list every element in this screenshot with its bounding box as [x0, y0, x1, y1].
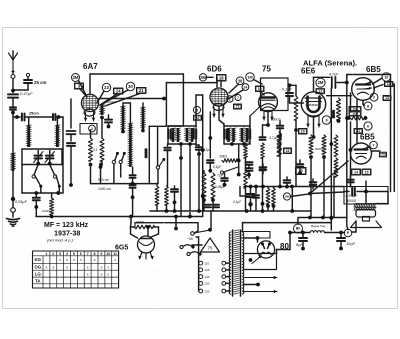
- tube 6A7: [81, 94, 98, 111]
- capacitor 174: [171, 186, 178, 211]
- filament arrow: [252, 255, 262, 263]
- svg-text:B0: B0: [296, 227, 300, 231]
- tube 6E6: [301, 92, 325, 116]
- wire feeder x346 top: [345, 75, 391, 219]
- wire top bus drop: [182, 74, 184, 126]
- svg-text:0,005µF: 0,005µF: [346, 194, 359, 198]
- svg-text:2: 2: [91, 127, 93, 131]
- svg-text:25cm: 25cm: [29, 112, 39, 116]
- resistor 6E6 k2: [315, 135, 326, 159]
- capacitor 25cm antenna: [13, 73, 47, 90]
- label 6G5: [115, 245, 128, 252]
- coil osc 3: [141, 103, 146, 132]
- wire second bus y82: [166, 83, 217, 126]
- wires divider down: [311, 180, 324, 218]
- pickup triangle: [201, 238, 220, 252]
- svg-text:5: 5: [73, 252, 75, 256]
- svg-text:24: 24: [243, 85, 247, 89]
- heater arrow 2: [244, 290, 277, 294]
- pin circle 2M 6D6: [199, 74, 206, 81]
- label 6A7: [83, 62, 98, 71]
- wire IFT2 to 75 grid: [250, 107, 260, 126]
- tube 80 filament hooks: [261, 252, 271, 254]
- svg-text:7: 7: [87, 252, 89, 256]
- wires switch columns: [114, 164, 121, 184]
- svg-text:30: 30: [128, 84, 133, 89]
- scan noise: [15, 31, 386, 306]
- circle BO lamp: [294, 224, 303, 233]
- label 500cm: [98, 178, 109, 182]
- capacitor 313: [310, 179, 317, 189]
- wire 6B5 cathode diagonal: [308, 161, 348, 195]
- svg-text:KG: KG: [34, 257, 41, 262]
- box 80 top: [241, 232, 271, 239]
- wire right column x63: [62, 117, 64, 193]
- wire IFT1 left column: [164, 144, 171, 211]
- svg-text:100000: 100000: [144, 148, 148, 158]
- variable capacitor C2: [45, 151, 55, 166]
- wires 6G5 grid loop: [131, 227, 159, 234]
- svg-text:160: 160: [205, 282, 210, 286]
- capacitors det bypass: [205, 205, 219, 208]
- capacitor k2: [67, 143, 75, 187]
- IFT2 primary coil: [226, 128, 236, 142]
- junction antenna node: [11, 89, 15, 93]
- wire RF input row with caps: [13, 112, 63, 121]
- svg-text:6B5: 6B5: [366, 65, 381, 74]
- text 1937-38: [54, 229, 80, 238]
- svg-text:20: 20: [301, 130, 305, 134]
- pin box 13: [383, 96, 391, 101]
- wire feeder x331: [329, 88, 333, 230]
- svg-text:73: 73: [381, 153, 385, 157]
- svg-text:0,1µF: 0,1µF: [233, 200, 242, 204]
- label 6D6: [207, 65, 222, 74]
- wire to IFT1: [168, 125, 183, 127]
- transformer primary winding: [229, 232, 230, 294]
- resistor 6B5 bias: [347, 116, 368, 120]
- variable capacitor C1: [34, 151, 44, 166]
- pin circle 6: [364, 122, 372, 130]
- svg-text:2: 2: [52, 252, 54, 256]
- capacitor 287: [284, 177, 291, 189]
- antenna terminal: [11, 75, 15, 79]
- svg-text:23: 23: [104, 85, 109, 90]
- svg-text:8: 8: [367, 104, 369, 108]
- wire feeder x390 right: [391, 75, 395, 192]
- label 75: [262, 65, 271, 74]
- svg-text:6E6: 6E6: [301, 67, 316, 76]
- wire 75 plate to cap: [288, 83, 292, 91]
- pin box 12: [385, 82, 394, 87]
- pin circle 9 6E6: [322, 116, 330, 124]
- resistor 157: [155, 184, 159, 211]
- capacitor 16uF: [337, 233, 356, 251]
- wire osc col to bus: [132, 197, 134, 216]
- svg-text:7µF: 7µF: [217, 174, 224, 178]
- wire SW to diagonal: [291, 194, 310, 197]
- svg-text:TA: TA: [35, 279, 41, 284]
- pin box 20: [299, 129, 308, 135]
- IFT1 trimmer left: [168, 130, 170, 139]
- svg-text:4,7µF: 4,7µF: [329, 73, 339, 77]
- wire 80 cathode to Bplus: [277, 231, 292, 254]
- wire BO up: [297, 218, 299, 225]
- resistor 6E6 k1: [309, 135, 313, 159]
- coil antenna secondary: [55, 117, 60, 147]
- svg-text:LG: LG: [35, 272, 42, 277]
- capacitor 250 det: [247, 185, 255, 211]
- svg-text:0,05µF: 0,05µF: [15, 200, 28, 204]
- wire HV top y222: [243, 223, 332, 232]
- wire main bus: [36, 215, 203, 219]
- wire osc top link: [123, 103, 130, 123]
- svg-text:10000: 10000: [42, 209, 50, 213]
- svg-text:1: 1: [45, 252, 47, 256]
- ground: [7, 212, 20, 226]
- wire 6B5 cathode: [363, 100, 364, 106]
- tube 6G5 magic eye: [138, 236, 155, 253]
- heater arrow 1: [244, 276, 277, 280]
- svg-text:16µF: 16µF: [346, 241, 356, 246]
- pin box 15: [362, 169, 371, 175]
- phono terminal A: [180, 245, 195, 249]
- svg-text:10: 10: [384, 75, 388, 79]
- pin box 14: [352, 169, 361, 175]
- wire bus tap 176: [174, 217, 178, 231]
- 6G5 pins: [138, 252, 154, 260]
- svg-text:75: 75: [236, 105, 240, 109]
- coil osc anode: [121, 106, 126, 133]
- svg-text:6B5: 6B5: [360, 133, 375, 142]
- pin box 11: [354, 129, 363, 134]
- wire osc down: [101, 118, 103, 139]
- phono terminal B: [187, 252, 202, 256]
- label 80: [280, 242, 289, 251]
- tube 6D6 base: [213, 104, 224, 111]
- svg-text:13: 13: [385, 96, 389, 100]
- svg-text:2M: 2M: [73, 75, 79, 80]
- svg-text:1: 1: [229, 97, 231, 101]
- antenna: [9, 51, 18, 74]
- pin circle 2M 6A7: [72, 74, 80, 82]
- svg-text:110: 110: [205, 261, 210, 265]
- capacitor 4.7u 6E6: [329, 73, 347, 89]
- svg-text:50000: 50000: [332, 110, 336, 118]
- svg-text:16: 16: [286, 149, 290, 153]
- IFT2 frame: [224, 126, 250, 144]
- capacitor padder: [105, 115, 112, 128]
- svg-text:24: 24: [116, 89, 121, 94]
- capacitor 8uF: [296, 233, 307, 251]
- pin circle 8: [364, 102, 372, 110]
- IFT1 trimmer right: [194, 130, 196, 139]
- wire bus upper y211: [150, 209, 310, 213]
- svg-text:OG: OG: [34, 265, 41, 270]
- resistor 1M AVC: [219, 155, 237, 163]
- pin circle 5 6D6: [193, 106, 200, 113]
- capacitor 6D6 k: [207, 160, 222, 173]
- pin box 18: [217, 75, 227, 82]
- svg-text:75: 75: [262, 65, 271, 74]
- coil antenna primary: [26, 117, 31, 147]
- wire output center: [364, 181, 368, 203]
- label 0.1uF det: [233, 200, 242, 204]
- boxes 152 150: [349, 107, 361, 117]
- svg-text:2: 2: [373, 95, 375, 99]
- wire pickup: [187, 237, 202, 245]
- svg-text:0,1: 0,1: [93, 148, 98, 152]
- wires switch down: [41, 187, 60, 194]
- text MF 123kHz: [44, 222, 89, 229]
- pin circle 7 and box 6B5 lower: [370, 141, 387, 157]
- svg-text:10: 10: [106, 252, 110, 256]
- pin box 3: [75, 83, 88, 97]
- IFT2 trimmer left: [224, 130, 226, 139]
- label 6E6: [301, 67, 316, 76]
- capacitors 500/1000cm: [130, 167, 136, 199]
- svg-text:1MΩ: 1MΩ: [219, 155, 227, 159]
- title ALFA Serena: [303, 59, 357, 68]
- svg-text:8: 8: [94, 252, 96, 256]
- svg-text:~50: ~50: [187, 237, 193, 241]
- ground terminal: [11, 201, 16, 212]
- resistor 75 plate load: [294, 96, 298, 187]
- pin box 75 6D6: [234, 104, 242, 109]
- tube 80 anodes: [261, 243, 271, 249]
- resistor 279: [278, 132, 282, 156]
- capacitor 0.47uF: [8, 91, 33, 98]
- wire 6D6 plate to IFT2: [219, 107, 224, 127]
- svg-text:4000Ω: 4000Ω: [347, 199, 357, 203]
- wire 6B5 center column: [356, 100, 358, 144]
- cathode arrows 75: [262, 111, 274, 120]
- capacitor 263b: [260, 164, 267, 174]
- svg-text:2M: 2M: [200, 75, 206, 80]
- svg-text:6A7: 6A7: [83, 62, 98, 71]
- box pin 2: [80, 124, 97, 135]
- resistor 10k to bus: [42, 193, 54, 217]
- svg-text:125: 125: [205, 268, 210, 272]
- svg-text:18: 18: [219, 75, 224, 80]
- stub 1M left: [134, 223, 136, 227]
- pin circle 1M 75: [246, 73, 255, 82]
- svg-text:SW: SW: [285, 195, 290, 199]
- speaker neck: [363, 217, 370, 222]
- wire lower link det: [244, 185, 294, 189]
- capacitor 0.05uF: [15, 193, 40, 209]
- wire top bus: [90, 73, 183, 75]
- wire feeder top link: [196, 95, 203, 126]
- wire switch feed: [135, 223, 198, 233]
- svg-text:500 cm: 500 cm: [98, 178, 109, 182]
- pin circle 2 6B5: [370, 93, 378, 101]
- heater tap: [244, 283, 260, 287]
- resistor 75 k: [277, 132, 281, 156]
- pin circle 10: [382, 73, 391, 82]
- wire padder column: [144, 126, 166, 183]
- wire transformer right: [376, 192, 388, 205]
- capacitor IFT1 bypass: [196, 144, 213, 156]
- capacitor 0.005uF tone: [344, 188, 388, 203]
- svg-text:6G5: 6G5: [115, 245, 128, 252]
- svg-text:75: 75: [208, 246, 213, 251]
- capacitor 0.1uF 6E6 grid: [282, 88, 293, 104]
- svg-text:1937-38: 1937-38: [54, 229, 80, 238]
- tube 6D6: [210, 88, 228, 106]
- pin circle 23: [97, 83, 111, 103]
- wave switch S4: [119, 152, 126, 164]
- resistor 273: [272, 187, 276, 212]
- tube 6A7 base: [84, 109, 95, 116]
- pin box 24: [100, 88, 123, 105]
- svg-text:6: 6: [367, 124, 369, 128]
- output transformer: [354, 204, 376, 211]
- wire mains common: [196, 237, 199, 291]
- wire bus to 6G5: [130, 217, 133, 228]
- capacitor k bypass: [67, 99, 76, 141]
- resistors 336 stack: [334, 135, 338, 177]
- wire 6E6 plate top: [314, 77, 331, 92]
- svg-text:21: 21: [139, 88, 144, 93]
- capacitor 75 k: [277, 121, 284, 187]
- pin box 21: [105, 88, 146, 107]
- svg-text:6D6: 6D6: [207, 65, 222, 74]
- wire 6E6 cathode down: [312, 116, 316, 139]
- filament loop 80: [244, 254, 277, 270]
- capacitor AVC stack: [246, 162, 253, 178]
- box tuning gang: [22, 149, 62, 165]
- capacitor 346: [347, 175, 354, 187]
- wires 6D6 top: [207, 77, 222, 87]
- IFT1 primary coil: [171, 128, 181, 142]
- svg-text:30: 30: [238, 78, 243, 83]
- pin circle 30 6D6: [236, 77, 244, 85]
- svg-text:7: 7: [237, 96, 239, 100]
- wire IFT1 sec down: [189, 144, 191, 217]
- svg-text:7: 7: [373, 143, 375, 147]
- coil osc grid: [99, 100, 116, 119]
- pin box 16: [284, 148, 292, 154]
- svg-text:9: 9: [100, 252, 102, 256]
- svg-text:6: 6: [80, 252, 82, 256]
- label 6B5 lower: [360, 133, 375, 142]
- tube 6B5 upper: [352, 78, 375, 101]
- pin circle 2M 6E6: [316, 78, 325, 87]
- svg-text:220: 220: [205, 289, 210, 293]
- wire lower link right: [292, 186, 344, 188]
- valve table: [33, 251, 119, 288]
- svg-text:500 K: 500 K: [242, 140, 250, 144]
- IFT1 frame: [168, 126, 196, 144]
- wires gang to switch: [34, 165, 55, 175]
- cathode arrows 6D6: [212, 107, 225, 117]
- resistor det load 1: [202, 171, 206, 211]
- svg-text:Bassa freq.: Bassa freq.: [311, 224, 326, 228]
- transformer core: [233, 230, 241, 296]
- resistor det load 2: [211, 173, 215, 211]
- pin box 19: [256, 86, 265, 92]
- switch power: [191, 228, 212, 235]
- capacitor 0.05 det: [215, 173, 228, 189]
- coil osc feedback: [128, 123, 133, 167]
- pin circle 1 6D6: [227, 96, 233, 102]
- wire feeder x350: [349, 93, 353, 187]
- svg-text:9: 9: [325, 118, 327, 122]
- wire x199 down: [198, 154, 200, 211]
- IFT1 bottom wire: [168, 142, 196, 146]
- wire cap to bus: [35, 207, 37, 217]
- resistor bias 2: [99, 138, 104, 166]
- wire feeder x202: [201, 95, 205, 217]
- svg-text:4: 4: [66, 252, 68, 256]
- resistor 1M 6G5: [134, 221, 154, 229]
- tube 6B5 lower: [351, 143, 372, 164]
- svg-text:0,47µF: 0,47µF: [20, 91, 33, 96]
- svg-text:3: 3: [59, 252, 61, 256]
- capacitor small trimmer: [10, 107, 16, 114]
- wire HV to 80: [243, 236, 259, 242]
- cathode arrows 6E6: [306, 116, 321, 127]
- svg-text:15: 15: [365, 170, 369, 174]
- speaker cone: [351, 221, 382, 228]
- label 6B5 upper: [366, 65, 381, 74]
- mains taps: [199, 261, 230, 293]
- resistor bias 1: [89, 130, 93, 166]
- wire grid 6E6: [290, 102, 304, 104]
- pin circle 7 6D6: [235, 95, 241, 101]
- capacitor 300: [297, 160, 304, 175]
- box 75 stage: [261, 78, 289, 111]
- wire 6A7 grid line: [99, 97, 166, 101]
- wire 6B5 lower plate: [372, 150, 381, 152]
- wire 2M to tube: [79, 81, 87, 96]
- label 600cm: [271, 118, 281, 122]
- resistor 75 cathode column: [260, 137, 266, 211]
- tube 6E6 base curve: [307, 114, 321, 117]
- svg-text:0,05µF: 0,05µF: [215, 185, 226, 189]
- svg-text:1000 cm: 1000 cm: [98, 187, 111, 191]
- wire 75 cathode down: [263, 112, 270, 136]
- svg-text:0,1µF: 0,1µF: [282, 88, 292, 92]
- svg-text:14: 14: [354, 170, 358, 174]
- wires 6E6 k down: [311, 157, 324, 187]
- pin box 10: [194, 115, 202, 120]
- filter choke: [310, 224, 326, 233]
- resistor cap column 247: [242, 140, 250, 211]
- capacitor column 255: [253, 185, 259, 211]
- wire det to pot: [240, 187, 256, 197]
- wave switch S3: [112, 152, 119, 164]
- wire down1: [12, 98, 14, 107]
- circle SW: [283, 193, 290, 200]
- wire 6D6 cathode down: [208, 112, 212, 158]
- speaker magnet: [356, 210, 376, 218]
- wire SW column: [291, 187, 293, 212]
- wires 6B5 plate: [373, 78, 384, 88]
- transformer secondary winding: [242, 232, 243, 294]
- cathode arrows 6A7: [84, 112, 96, 121]
- wires 6G5 to tube: [131, 234, 159, 238]
- wire B plus bus: [290, 231, 345, 235]
- wire to ground: [11, 171, 15, 201]
- pin circle 30: [102, 82, 135, 104]
- wire to 6B5 grid: [327, 95, 352, 97]
- wire 6G5 top: [146, 225, 150, 236]
- wave switch S5: [156, 127, 165, 184]
- wire antenna down: [12, 79, 14, 93]
- label 0.1: [93, 148, 98, 152]
